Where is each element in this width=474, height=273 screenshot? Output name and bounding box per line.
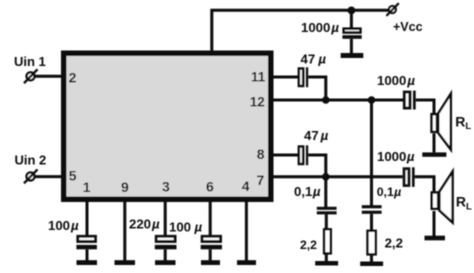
wire C5 to speaker 2 <box>415 177 434 193</box>
svg-text:6: 6 <box>206 179 214 195</box>
node Uin 1 (input terminal) <box>14 54 46 83</box>
op-amp U1 (power amplifier IC body) <box>64 53 271 199</box>
svg-text:2: 2 <box>69 70 77 86</box>
svg-text:+Vcc: +Vcc <box>393 20 423 34</box>
capacitor C2 47µ (pin 11) <box>299 51 327 87</box>
wire C6 to R1 <box>325 214 328 229</box>
wire pin 3 down <box>164 201 167 236</box>
node Uin 2 (input terminal) <box>15 152 47 183</box>
svg-text:0,1µ: 0,1µ <box>377 185 402 199</box>
capacitor C10 100µ (pin 6) <box>169 220 222 250</box>
svg-text:47µ: 47µ <box>304 128 329 143</box>
capacitor C9 220µ (pin 3) <box>129 217 177 250</box>
junction pin7/C3/zobel1 <box>322 173 330 181</box>
wire pin 1 down <box>86 201 89 236</box>
svg-text:7: 7 <box>257 172 265 188</box>
wire C4 to speaker 1 <box>416 100 434 114</box>
ground (C1) <box>341 53 364 58</box>
junction pin12/branch2 <box>368 96 376 104</box>
svg-text:1000µ: 1000µ <box>377 73 415 88</box>
wire pin 4 to ground <box>245 201 248 261</box>
svg-text:5: 5 <box>69 168 77 184</box>
capacitor C1 1000µ (supply decoupling) <box>301 20 362 39</box>
wire C7 to R2 <box>370 214 373 231</box>
ground (speaker 2) <box>425 236 446 241</box>
wire C10 to ground <box>209 249 212 260</box>
wire Uin2 to pin 5 <box>35 175 64 178</box>
ground (pin 3) <box>155 260 176 265</box>
svg-text:4: 4 <box>242 178 250 194</box>
wire C2 to pin 12 net <box>308 77 326 100</box>
svg-text:11: 11 <box>251 70 266 85</box>
wire C3 to pin 7 net <box>308 155 326 177</box>
svg-text:2,2: 2,2 <box>385 235 403 250</box>
svg-text:47µ: 47µ <box>301 51 327 66</box>
svg-text:12: 12 <box>250 95 265 110</box>
svg-text:0,1µ: 0,1µ <box>294 184 321 199</box>
node +Vcc terminal <box>386 3 422 34</box>
speaker RL 2 <box>432 172 472 223</box>
wire pin 11 <box>269 76 299 79</box>
ground (pin 1) <box>77 260 98 265</box>
svg-text:3: 3 <box>162 179 170 195</box>
speaker RL 1 <box>432 94 472 150</box>
wire zobel branch 1 down <box>324 177 327 208</box>
wire C9 to ground <box>164 249 167 260</box>
wire R2 to ground <box>370 254 373 262</box>
wire pin 6 down <box>209 201 212 236</box>
ground (pin 4) <box>237 260 256 265</box>
ground (pin 9) <box>115 260 136 265</box>
wire pin 8 <box>269 154 299 157</box>
wire C8 to ground <box>86 249 89 260</box>
ground (speaker 1) <box>422 152 446 156</box>
svg-text:Uin 2: Uin 2 <box>15 152 47 167</box>
capacitor C8 100µ (pin 1) <box>48 218 97 249</box>
capacitor C3 47µ (pin 8) <box>299 128 329 165</box>
ground (R1) <box>315 261 338 266</box>
wire junction to C1 <box>350 10 353 28</box>
wire C1 to ground <box>350 39 353 54</box>
junction Vcc rail / C1 <box>348 6 356 14</box>
svg-text:9: 9 <box>121 179 129 195</box>
ground (pin 6) <box>201 260 220 265</box>
wire zobel branch 2 down from pin12 junction <box>370 100 373 206</box>
wire pin 12 <box>269 99 403 102</box>
capacitor C4 1000µ (output 1) <box>377 73 416 109</box>
svg-text:1000µ: 1000µ <box>301 20 339 35</box>
junction pin12/C2 <box>322 96 330 104</box>
resistor R2 2,2 (zobel 2) <box>368 231 403 255</box>
svg-text:Uin 1: Uin 1 <box>14 54 46 69</box>
svg-text:220µ: 220µ <box>129 217 160 232</box>
wire Uin1 to pin 2 <box>35 75 64 78</box>
svg-text:100µ: 100µ <box>169 220 203 235</box>
wire speaker 1 to ground <box>433 133 436 152</box>
wire R1 to ground <box>325 255 328 263</box>
svg-text:2,2: 2,2 <box>300 238 317 252</box>
svg-text:100µ: 100µ <box>48 218 79 233</box>
wire pin 7 <box>269 175 403 178</box>
svg-text:8: 8 <box>257 146 265 162</box>
svg-text:1: 1 <box>83 179 91 195</box>
svg-text:1000µ: 1000µ <box>377 149 415 164</box>
wire pin 9 to ground <box>123 201 126 261</box>
capacitor C6 0,1µ (zobel 1) <box>294 184 337 214</box>
wire speaker 2 to ground <box>433 211 436 236</box>
resistor R1 2,2 (zobel 1) <box>300 229 331 253</box>
capacitor C5 1000µ (output 2) <box>377 149 415 187</box>
ground (R2) <box>360 262 383 267</box>
capacitor C7 0,1µ (zobel 2) <box>362 185 401 214</box>
wire IC top to Vcc rail <box>212 10 390 52</box>
